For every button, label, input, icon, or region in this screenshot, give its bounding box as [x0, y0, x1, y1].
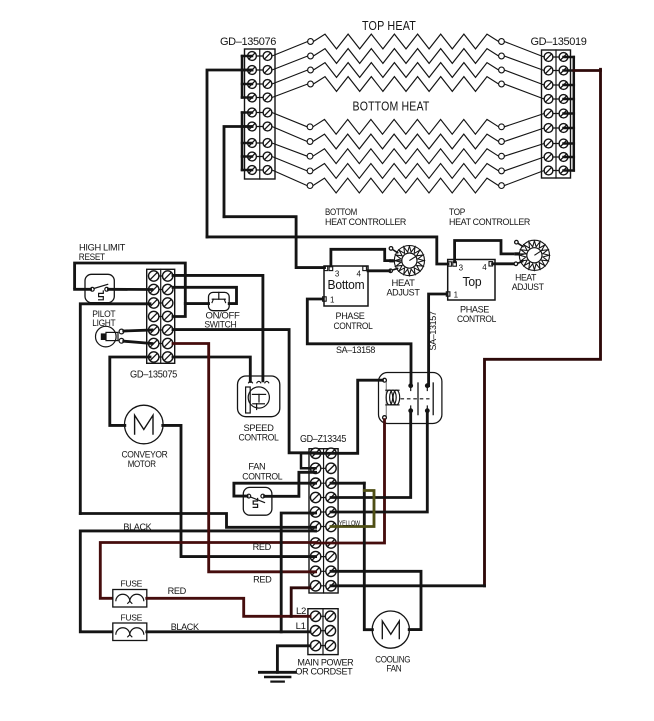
pilot light DS1 [96, 326, 124, 347]
motor M1 CONVEYOR [125, 405, 164, 444]
label PHASE CONTROL top [457, 305, 496, 324]
wire relay K1 frame to GD-Z13345 row7 [316, 420, 385, 543]
wire U1 pin4 to bottom pot [368, 269, 390, 272]
svg-text:CONVEYOR: CONVEYOR [122, 450, 169, 460]
label RED 3 [168, 586, 187, 596]
fuse F2 [113, 623, 147, 641]
svg-text:LIGHT: LIGHT [92, 318, 116, 328]
wire U1 pin3 to bottom pot [331, 249, 390, 266]
label FUSE 1 [121, 578, 143, 588]
label PHASE CONTROL bottom [334, 311, 373, 331]
wire relay K1 contact to GD-Z13345 row5 [331, 411, 427, 512]
svg-text:MOTOR: MOTOR [128, 459, 157, 469]
wire fuse F2 to L1 [147, 630, 310, 633]
wire bottom element 5 to GD-135019 row9 [504, 171, 544, 186]
wire conveyor motor to GD-Z13345 row8 [163, 425, 316, 556]
svg-text:GD–135019: GD–135019 [531, 36, 587, 48]
svg-text:BLACK: BLACK [123, 522, 152, 532]
heating element top E4 [308, 77, 505, 92]
svg-text:BLACK: BLACK [171, 622, 200, 632]
label GD-Z13345 [300, 434, 347, 445]
wire GD-135076 row2 to top element 2 [272, 56, 308, 70]
label GD-135076 [220, 36, 276, 48]
wire GD-135076 row9 to bottom element 5 [272, 170, 307, 186]
jumper bar GD-135076 rows5-9 [242, 113, 252, 171]
potentiometer HEAT ADJUST top [514, 240, 549, 270]
label GD-135019 [531, 36, 587, 48]
heating element bottom E5 [307, 119, 504, 134]
svg-text:TOP: TOP [449, 207, 465, 217]
svg-text:CONTROL: CONTROL [242, 471, 282, 481]
wire right bus down [485, 69, 601, 586]
wire top element 1 to GD-135019 row1 [504, 42, 544, 58]
heating element bottom E8 [307, 164, 504, 179]
wire right bus to GD-Z13345 row10 [331, 584, 485, 587]
svg-text:GD–135076: GD–135076 [220, 36, 276, 48]
wire U2 pin4 to top pot [493, 262, 513, 265]
wire GD-135075 row1 to speed control [173, 275, 263, 380]
svg-text:SA–13157: SA–13157 [428, 311, 438, 350]
wire GD-135076 row6 to bottom element 2 [272, 127, 307, 142]
terminal block GD-135075 [147, 269, 175, 363]
wire conveyor motor to GD-135075 row7 left [110, 357, 150, 425]
motor M2 COOLING FAN [372, 611, 409, 648]
svg-text:SA–13158: SA–13158 [336, 345, 375, 355]
label PILOT LIGHT [92, 309, 116, 328]
wire GD-Z13345 row10 jog to L2 [291, 588, 310, 617]
svg-text:HEAT CONTROLLER: HEAT CONTROLLER [325, 217, 407, 227]
wire top element 4 to GD-135019 row4 [504, 84, 544, 99]
fuse F1 [113, 590, 147, 608]
wire high limit top [75, 263, 186, 317]
svg-text:FAN: FAN [248, 462, 265, 472]
label MAIN POWER OR CORDSET [295, 658, 354, 677]
heating element top E2 [308, 49, 505, 64]
label L1 [296, 621, 306, 632]
label COOLING FAN [375, 655, 410, 674]
svg-text:ADJUST: ADJUST [387, 288, 421, 298]
svg-text:PHASE: PHASE [336, 311, 365, 321]
phase control U1 Bottom [323, 266, 368, 306]
label TOP HEAT [362, 19, 416, 33]
wire fan control to GD-Z13345 row2 [265, 472, 316, 496]
wire GD-135075 row2 to on/off switch [173, 287, 237, 303]
label BOTTOM HEAT [353, 100, 430, 114]
heating element top E1 [308, 34, 505, 49]
label L2 [296, 606, 306, 617]
wire U1 pin1 to relay K1 coil [307, 299, 411, 386]
wire bottom element 4 to GD-135019 row8 [504, 157, 544, 171]
label ON/OFF SWITCH [204, 311, 240, 330]
jumper GD-Z13345 rows1-2 [301, 453, 316, 468]
jumper bar GD-135019 rows1-9 [564, 57, 574, 171]
label FAN CONTROL [242, 462, 282, 482]
wire feed A to GD-135076 row2 [207, 70, 252, 237]
label TOP HEAT CONTROLLER [449, 207, 531, 227]
svg-text:RED: RED [168, 586, 187, 596]
wire GD-Z13345 row3 branch [331, 482, 364, 485]
wire yellow GD-Z13345 row6 to fan wire [331, 491, 374, 527]
wire pilot light to GD-135075 row6 [124, 341, 152, 343]
potentiometer HEAT ADJUST bottom [389, 246, 425, 276]
svg-text:SPEED: SPEED [244, 423, 275, 433]
wire U2 pin1 to relay K1 coil [429, 294, 447, 386]
label BOTTOM HEAT CONTROLLER [325, 207, 407, 227]
svg-text:CONTROL: CONTROL [457, 314, 496, 324]
heating element bottom E9 [307, 178, 504, 193]
heating element bottom E7 [307, 149, 504, 164]
label HIGH LIMIT RESET [79, 243, 126, 262]
relay K1 [379, 373, 442, 424]
svg-text:BOTTOM: BOTTOM [325, 207, 357, 217]
wire main power to ground [277, 646, 310, 673]
terminal block GD-135019 [542, 50, 571, 178]
label RED 1 [253, 542, 272, 552]
svg-text:RED: RED [253, 575, 272, 585]
wire fuse F1 to L2 [147, 598, 310, 616]
heating element top E3 [308, 63, 505, 78]
wire top element 2 to GD-135019 row2 [504, 56, 544, 71]
wire GD-Z13345 row3 to cooling fan [364, 483, 372, 630]
svg-text:GD–135075: GD–135075 [130, 370, 178, 381]
wire bottom element 1 to GD-135019 row5 [504, 114, 544, 127]
terminal block GD-Z13345 [309, 448, 338, 593]
label SPEED CONTROL [239, 423, 279, 443]
svg-text:OR CORDSET: OR CORDSET [295, 667, 353, 677]
wire bottom element 3 to GD-135019 row7 [504, 144, 544, 157]
label CONVEYOR MOTOR [122, 450, 169, 470]
ground [259, 672, 295, 681]
wire GD-135075 row5 to GD-Z13345 row1 [173, 330, 316, 453]
switch S2 ON/OFF [209, 292, 230, 310]
svg-text:CONTROL: CONTROL [334, 321, 373, 331]
label BLACK 1 [123, 522, 152, 532]
svg-text:L2: L2 [296, 606, 306, 617]
svg-text:TOP HEAT: TOP HEAT [362, 19, 416, 33]
wire bottom element 2 to GD-135019 row6 [504, 128, 544, 142]
jumper bar GD-135076 rows1-4 [242, 56, 252, 98]
label FUSE 2 [121, 612, 143, 622]
wire GD-Z13345 row5 to L1 bus [281, 513, 315, 632]
wire feed A to Top phase control pin3 [207, 237, 448, 264]
label HEAT ADJUST top [512, 273, 545, 292]
svg-text:SWITCH: SWITCH [204, 319, 236, 329]
wire P GD-135075 row3 loop to GD-Z13345 row6 [80, 514, 315, 528]
svg-text:RED: RED [253, 542, 272, 552]
wire GD-135076 row8 to bottom element 4 [272, 157, 307, 171]
wire relay K1 contact to GD-Z13345 row4 [331, 411, 411, 498]
terminal block main power [308, 609, 338, 655]
wire top element 3 to GD-135019 row3 [504, 70, 544, 85]
phase control U2 Top [446, 260, 495, 301]
svg-text:RESET: RESET [79, 252, 106, 262]
heating element bottom E6 [307, 134, 504, 149]
svg-text:Bottom: Bottom [328, 278, 365, 292]
wire GD-135076 row5 to bottom element 1 [272, 113, 307, 127]
label BLACK 2 [171, 622, 200, 632]
svg-text:HEAT: HEAT [392, 278, 416, 288]
svg-text:HEAT CONTROLLER: HEAT CONTROLLER [449, 217, 531, 227]
tick before OR CORDSET [289, 671, 295, 673]
wire GD-135076 row7 to bottom element 3 [272, 143, 307, 156]
wire GD-135076 row1 to top element 1 [272, 42, 308, 57]
wire relay K1 frame to GD-Z13345 row1 [316, 380, 383, 453]
svg-text:FUSE: FUSE [121, 612, 143, 622]
svg-text:BOTTOM HEAT: BOTTOM HEAT [353, 100, 430, 114]
svg-text:FAN: FAN [386, 664, 401, 674]
svg-text:FUSE: FUSE [121, 578, 143, 588]
wire GD-135076 row3 to top element 3 [272, 70, 308, 84]
wire high limit loop [80, 304, 150, 514]
speed control R1 [238, 376, 280, 417]
wire feed B to Bottom phase control pin3 [224, 217, 325, 268]
wire GD-135075 row7 to speed control [173, 357, 250, 382]
wire on/off switch to junction [185, 302, 208, 305]
svg-text:ADJUST: ADJUST [512, 282, 545, 292]
svg-text:L1: L1 [296, 621, 306, 632]
wire GD-Z13345 row3 to fan control [234, 483, 316, 496]
svg-text:GD–Z13345: GD–Z13345 [300, 434, 347, 445]
wire high limit to GD-135075 row2 [109, 288, 153, 291]
label HEAT ADJUST bottom [387, 278, 421, 298]
label SA-13157 [428, 311, 438, 350]
wire GD-135076 row4 to top element 4 [272, 84, 308, 98]
label GD-135075 [130, 370, 178, 381]
wire to high limit left contact [75, 288, 91, 291]
wire GD-135075 row6 to GD-Z13345 row9 [173, 344, 316, 572]
label RED 2 [253, 575, 272, 585]
wire red fuse F1 to GD-Z13345 row7 [100, 543, 315, 599]
svg-text:YELLOW: YELLOW [339, 519, 361, 528]
wire feed B to GD-135076 row6 [224, 127, 252, 217]
label YELLOW [339, 519, 361, 528]
wire black L1 branch to GD-Z13345 row6 [80, 531, 315, 632]
wire GD-Z13345 row9 to cooling fan [331, 571, 421, 629]
wire GD-135019 row2 to right bus [574, 69, 601, 72]
label SA-13158 [336, 345, 375, 355]
thermal switch S3 FAN CONTROL [243, 487, 272, 515]
thermal switch S1 HIGH LIMIT RESET [85, 274, 114, 302]
terminal block GD-135076 [245, 49, 276, 179]
wire pilot light to GD-135075 row5 [124, 330, 152, 331]
svg-text:Top: Top [463, 275, 482, 289]
svg-text:CONTROL: CONTROL [239, 433, 279, 443]
wire U2 pin3 to top pot [455, 241, 513, 262]
